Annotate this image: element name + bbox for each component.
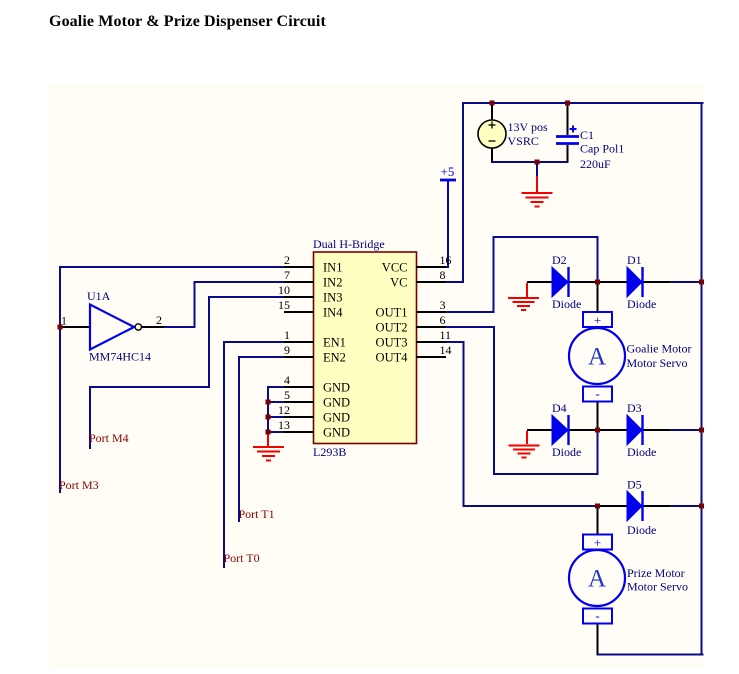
pin 13 GND stub — [285, 431, 313, 433]
svg-text:A: A — [588, 566, 606, 593]
wire GND pins vertical bus — [267, 387, 269, 432]
wire D5 cathode to bus — [671, 505, 702, 507]
svg-text:4: 4 — [284, 373, 290, 387]
svg-text:D1: D1 — [627, 253, 642, 267]
svg-text:GND: GND — [323, 411, 350, 425]
wire D5 cathode stub — [643, 505, 671, 507]
svg-text:Port M3: Port M3 — [59, 478, 99, 492]
svg-text:12: 12 — [278, 403, 290, 417]
wire EN2 net / Port T1 — [239, 357, 285, 521]
node GND pin 13 junction — [266, 430, 271, 435]
svg-text:Prize Motor: Prize Motor — [627, 566, 685, 580]
node VSRC top junction — [490, 101, 495, 106]
wire OUT3 to prize node — [445, 342, 598, 506]
wire inverter output to IN2 — [164, 282, 285, 327]
pin 8 VC stub — [417, 281, 445, 283]
svg-text:EN1: EN1 — [323, 336, 346, 350]
svg-text:-: - — [595, 608, 599, 623]
op-amp U1A inverter — [60, 289, 164, 364]
svg-text:Diode: Diode — [627, 523, 656, 537]
diode D5 — [598, 478, 671, 538]
motor M1 Goalie Motor — [569, 282, 692, 430]
svg-text:D2: D2 — [552, 253, 567, 267]
wire +5 to VCC pin — [445, 191, 448, 267]
wire C1 bottom stub — [567, 145, 569, 162]
wire GND pin 12 link — [268, 416, 285, 418]
svg-text:Cap Pol1: Cap Pol1 — [580, 142, 624, 156]
pin 1 EN1 stub — [285, 341, 313, 343]
svg-text:D5: D5 — [627, 478, 642, 492]
pin 12 GND stub — [285, 416, 313, 418]
U1A triangle — [90, 305, 134, 350]
svg-text:Port T0: Port T0 — [224, 551, 260, 565]
wire OUT2 to bridge bottom — [445, 327, 598, 474]
ground (IC GND pins) — [253, 432, 284, 461]
wire prize motor bottom — [598, 654, 703, 656]
wire C1 top stub — [567, 103, 569, 135]
svg-text:A: A — [588, 344, 606, 371]
svg-text:MM74HC14: MM74HC14 — [89, 350, 151, 364]
wire top bus VCC13 — [463, 102, 703, 104]
svg-text:Goalie Motor & Prize Dispenser: Goalie Motor & Prize Dispenser Circuit — [49, 13, 326, 30]
svg-text:14: 14 — [440, 343, 452, 357]
svg-text:OUT3: OUT3 — [376, 336, 408, 350]
svg-text:GND: GND — [323, 381, 350, 395]
wire GND pin 4 link — [268, 386, 285, 388]
pin 9 EN2 stub — [285, 356, 313, 358]
capacitor C1 — [556, 103, 624, 171]
node VSRC/C1 ground junction — [535, 160, 540, 165]
node GND pin 12 junction — [266, 415, 271, 420]
svg-text:5: 5 — [284, 388, 290, 402]
svg-text:OUT1: OUT1 — [376, 306, 408, 320]
node U1A input junction — [58, 325, 63, 330]
wire D3 cathode stub — [643, 429, 671, 431]
wire D2 anode stub — [527, 281, 552, 283]
node D3 cathode bus junction — [699, 428, 704, 433]
pin 10 IN3 stub — [285, 296, 313, 298]
pin 2 IN1 stub — [285, 266, 313, 268]
wire D5 anode stub — [598, 505, 628, 507]
svg-text:IN2: IN2 — [323, 276, 342, 290]
pin 5 GND stub — [285, 401, 313, 403]
svg-text:10: 10 — [278, 283, 290, 297]
svg-text:+: + — [594, 313, 601, 328]
svg-text:D3: D3 — [627, 401, 642, 415]
wire IN1 net / Port M3 — [60, 267, 285, 492]
svg-text:+5: +5 — [441, 164, 455, 179]
node C prize motor plus junction — [595, 504, 600, 509]
wire right bus — [701, 103, 703, 655]
svg-text:Diode: Diode — [552, 445, 581, 459]
svg-text:VSRC: VSRC — [508, 134, 539, 148]
svg-text:13: 13 — [278, 418, 290, 432]
wire D1 cathode stub — [643, 281, 671, 283]
wire IN3 net / Port M4 — [90, 297, 285, 448]
wire D1 cathode to bus — [671, 281, 702, 283]
power +5 symbol — [440, 164, 456, 191]
diode D2 — [527, 253, 598, 311]
wire EN1 net / Port T0 — [224, 342, 285, 567]
wire M2 plus pin — [597, 506, 599, 535]
IC U2 L293B body — [313, 237, 417, 459]
node A goalie motor plus junction — [595, 280, 600, 285]
wire D3 anode stub — [598, 429, 628, 431]
svg-text:7: 7 — [284, 268, 290, 282]
diode D4 — [527, 401, 598, 459]
IC pin names right (VCC VC OUT1 OUT2 OUT3 OUT4) — [376, 261, 409, 365]
svg-text:U1A: U1A — [87, 289, 111, 303]
svg-text:11: 11 — [440, 328, 452, 342]
svg-text:+: + — [594, 535, 601, 550]
svg-text:Diode: Diode — [627, 297, 656, 311]
wire VSRC bottom to C1 bottom — [492, 161, 568, 163]
ground (D2) — [508, 283, 539, 310]
wire GND pin 13 link — [268, 431, 285, 433]
svg-text:GND: GND — [323, 396, 350, 410]
pin 16 VCC stub — [417, 266, 445, 268]
svg-text:16: 16 — [440, 253, 452, 267]
svg-text:6: 6 — [440, 313, 446, 327]
svg-text:IN1: IN1 — [323, 261, 342, 275]
wire VSRC bottom stub — [491, 148, 493, 162]
wire D4 anode stub — [527, 429, 552, 431]
ground (D4) — [509, 431, 540, 458]
pin 6 OUT2 stub — [417, 326, 445, 328]
wire VC to top bus — [444, 103, 463, 282]
wire VSRC top stub — [491, 103, 493, 120]
svg-text:15: 15 — [278, 298, 290, 312]
svg-text:C1: C1 — [580, 128, 594, 142]
voltage source VSRC — [478, 103, 548, 162]
IC pin names left (IN1 IN2 IN3 IN4 EN1 EN2 GND GND GND GND) — [323, 261, 350, 440]
svg-text:Diode: Diode — [627, 445, 656, 459]
ground (VSRC) — [522, 176, 553, 207]
svg-text:GND: GND — [323, 426, 350, 440]
wire D2 cathode stub — [569, 281, 598, 283]
node D1 cathode bus junction — [699, 280, 704, 285]
svg-text:IN3: IN3 — [323, 291, 342, 305]
wire D3 cathode to bus — [671, 429, 702, 431]
svg-text:9: 9 — [284, 343, 290, 357]
pin 4 GND stub — [285, 386, 313, 388]
svg-text:L293B: L293B — [313, 445, 346, 459]
diode D3 — [598, 401, 671, 459]
diode D1 — [598, 253, 671, 311]
svg-text:Port M4: Port M4 — [89, 431, 129, 445]
pin 7 IN2 stub — [285, 281, 313, 283]
wire D4 cathode stub — [569, 429, 598, 431]
svg-text:VC: VC — [390, 276, 407, 290]
pin 15 IN4 stub — [285, 311, 313, 313]
svg-text:IN4: IN4 — [323, 306, 343, 320]
wire M1 minus pin — [597, 401, 599, 430]
pin 14 OUT4 stub — [417, 356, 445, 358]
wire U1A input stub — [60, 326, 89, 328]
pin 11 OUT3 stub — [417, 341, 445, 343]
svg-text:2: 2 — [284, 253, 290, 267]
node C1 top junction — [565, 101, 570, 106]
svg-text:Goalie Motor: Goalie Motor — [627, 342, 692, 356]
wire U1A output stub — [142, 326, 164, 328]
wire M1 plus pin — [597, 282, 599, 312]
svg-text:Dual H-Bridge: Dual H-Bridge — [313, 237, 385, 251]
svg-text:2: 2 — [156, 313, 162, 327]
svg-text:1: 1 — [284, 328, 290, 342]
node D5 cathode bus junction — [699, 504, 704, 509]
wire GND pin 5 link — [268, 401, 285, 403]
svg-text:3: 3 — [440, 298, 446, 312]
svg-text:8: 8 — [440, 268, 446, 282]
pin 3 OUT1 stub — [417, 311, 445, 313]
svg-text:VCC: VCC — [382, 261, 408, 275]
U1A bubble — [135, 324, 141, 330]
svg-text:Port T1: Port T1 — [239, 507, 275, 521]
svg-text:13V pos: 13V pos — [508, 120, 548, 134]
svg-text:OUT4: OUT4 — [376, 351, 409, 365]
svg-text:EN2: EN2 — [323, 351, 346, 365]
svg-text:220uF: 220uF — [580, 157, 611, 171]
svg-text:Motor Servo: Motor Servo — [627, 356, 688, 370]
wire D1 anode stub — [598, 281, 628, 283]
motor M2 Prize Motor — [569, 506, 688, 655]
node GND pin 5 junction — [266, 400, 271, 405]
svg-text:D4: D4 — [552, 401, 567, 415]
wire M2 minus pin — [597, 623, 599, 655]
svg-text:Motor Servo: Motor Servo — [627, 580, 688, 594]
svg-text:OUT2: OUT2 — [376, 321, 408, 335]
node B goalie motor minus junction — [595, 428, 600, 433]
wire gnd drop from node — [536, 162, 538, 177]
svg-text:Diode: Diode — [552, 297, 581, 311]
svg-text:-: - — [595, 386, 599, 401]
wire OUT1 to bridge top — [445, 237, 598, 312]
